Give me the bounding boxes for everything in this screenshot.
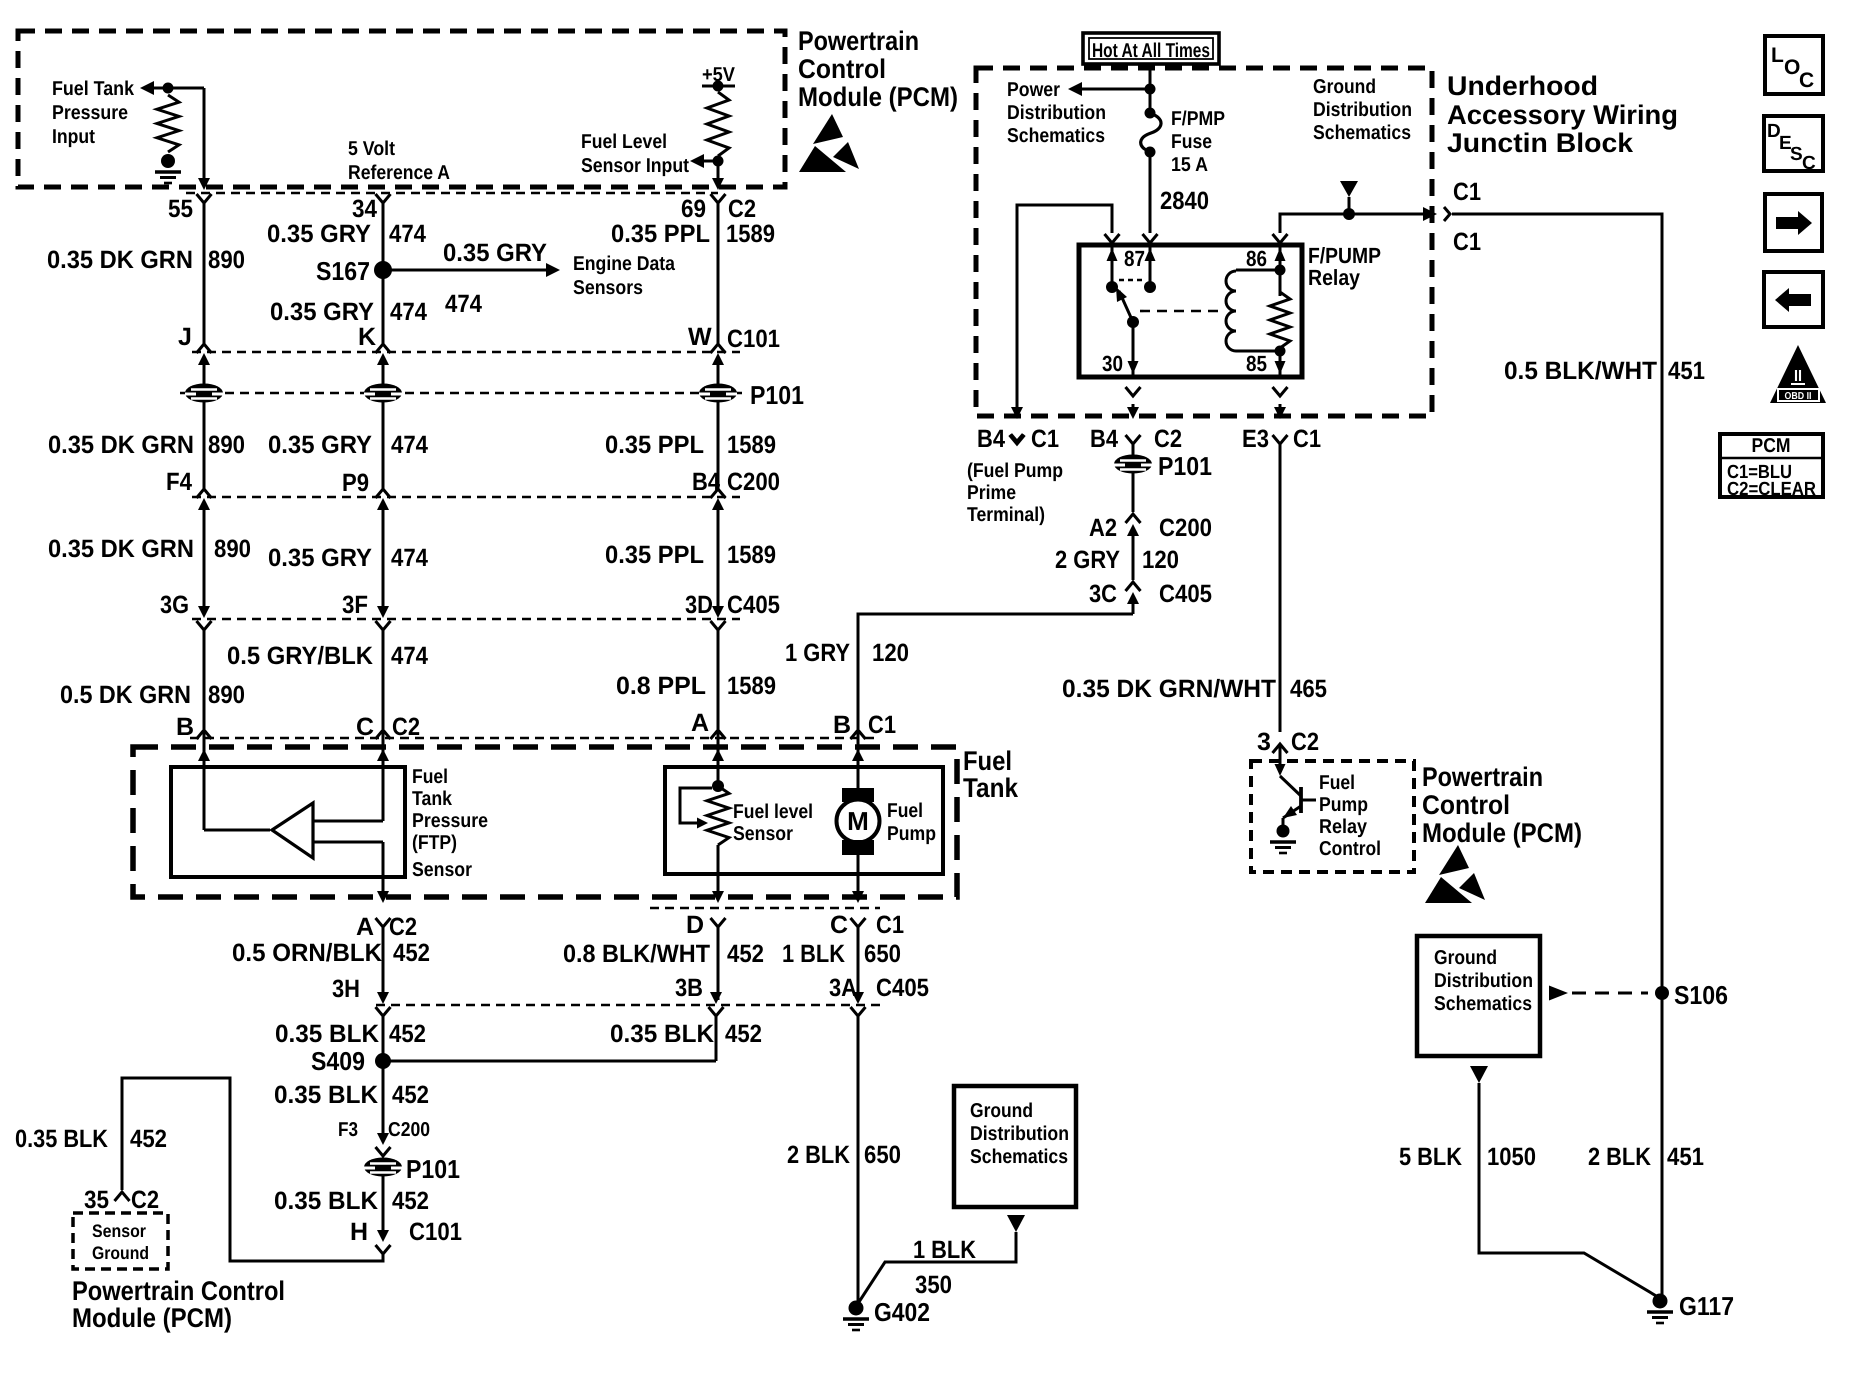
svg-text:C2: C2 xyxy=(389,913,417,941)
svg-text:0.35 BLK: 0.35 BLK xyxy=(274,1187,378,1215)
svg-text:Sensor Input: Sensor Input xyxy=(581,155,689,177)
svg-text:Hot At All Times: Hot At All Times xyxy=(1092,40,1210,62)
svg-text:452: 452 xyxy=(392,1187,429,1215)
svg-text:85: 85 xyxy=(1246,351,1267,376)
svg-text:P101: P101 xyxy=(1158,451,1212,481)
fuel pump motor xyxy=(857,767,860,790)
svg-text:0.35 GRY: 0.35 GRY xyxy=(270,298,374,326)
svg-text:C1: C1 xyxy=(1031,425,1059,453)
svg-text:1050: 1050 xyxy=(1487,1143,1536,1171)
svg-text:452: 452 xyxy=(392,1081,429,1109)
svg-text:474: 474 xyxy=(445,290,482,318)
Underhood junction block dashed box xyxy=(976,68,1432,416)
svg-text:C200: C200 xyxy=(388,1119,430,1141)
svg-text:Control: Control xyxy=(1319,838,1381,860)
svg-text:86: 86 xyxy=(1246,246,1267,271)
svg-text:Module (PCM): Module (PCM) xyxy=(798,82,958,112)
fuel level wiper xyxy=(680,788,712,823)
svg-text:Sensor: Sensor xyxy=(92,1221,146,1241)
svg-text:C2: C2 xyxy=(392,713,420,741)
svg-text:Prime: Prime xyxy=(967,482,1016,504)
svg-text:Tank: Tank xyxy=(963,773,1019,803)
svg-text:0.8 BLK/WHT: 0.8 BLK/WHT xyxy=(563,940,710,968)
svg-text:L: L xyxy=(1771,44,1784,67)
svg-text:3F: 3F xyxy=(342,591,368,619)
svg-text:3C: 3C xyxy=(1089,580,1117,608)
FTP sensor box xyxy=(171,767,405,877)
svg-text:Fuel: Fuel xyxy=(963,746,1012,776)
svg-text:0.35 PPL: 0.35 PPL xyxy=(605,541,704,569)
svg-text:C: C xyxy=(1799,69,1814,92)
svg-text:F4: F4 xyxy=(166,468,192,496)
svg-text:Relay: Relay xyxy=(1308,265,1361,290)
svg-text:452: 452 xyxy=(725,1020,762,1048)
relay coil drive dashed link xyxy=(1140,310,1222,313)
svg-text:II: II xyxy=(1794,368,1802,385)
svg-text:30: 30 xyxy=(1102,351,1123,376)
PCM connector legend xyxy=(1720,434,1823,497)
svg-text:Relay: Relay xyxy=(1319,816,1368,838)
svg-text:Sensors: Sensors xyxy=(573,277,643,299)
svg-text:3B: 3B xyxy=(675,974,703,1002)
svg-text:1589: 1589 xyxy=(727,541,776,569)
svg-text:0.5 DK GRN: 0.5 DK GRN xyxy=(60,681,191,709)
svg-text:K: K xyxy=(358,323,376,351)
svg-text:G402: G402 xyxy=(874,1297,930,1327)
svg-text:S: S xyxy=(1790,144,1803,165)
svg-text:1 GRY: 1 GRY xyxy=(785,639,850,667)
wire 69 drop inside PCM xyxy=(717,161,720,184)
svg-text:Control: Control xyxy=(1422,790,1510,820)
circuit 2840 wire xyxy=(1149,152,1152,233)
svg-text:0.35 BLK: 0.35 BLK xyxy=(15,1125,108,1153)
left arrow icon xyxy=(1764,272,1823,327)
svg-text:A2: A2 xyxy=(1089,514,1117,542)
svg-text:C2=CLEAR: C2=CLEAR xyxy=(1727,479,1816,500)
svg-text:0.8 PPL: 0.8 PPL xyxy=(616,672,706,700)
svg-text:A: A xyxy=(691,709,709,737)
svg-text:C405: C405 xyxy=(1159,580,1212,608)
svg-text:474: 474 xyxy=(389,220,426,248)
svg-text:Sensor: Sensor xyxy=(733,823,793,845)
wire 474 segment 1 xyxy=(382,203,385,344)
svg-text:890: 890 xyxy=(208,431,245,459)
svg-text:69: 69 xyxy=(681,195,706,223)
svg-text:Fuel: Fuel xyxy=(412,766,448,788)
antenna mark xyxy=(1340,181,1358,197)
svg-text:Fuel: Fuel xyxy=(1319,772,1355,794)
svg-text:3A: 3A xyxy=(829,974,857,1002)
svg-text:Control: Control xyxy=(798,54,886,84)
OBD II icon xyxy=(1770,345,1826,403)
svg-text:452: 452 xyxy=(727,940,764,968)
svg-text:0.5 GRY/BLK: 0.5 GRY/BLK xyxy=(227,642,373,670)
svg-text:650: 650 xyxy=(864,940,901,968)
svg-text:S167: S167 xyxy=(316,256,370,286)
svg-text:O: O xyxy=(1784,56,1800,79)
svg-text:S106: S106 xyxy=(1674,980,1728,1010)
grommet P101 c xyxy=(699,384,737,403)
relay 30 output wire xyxy=(1132,404,1135,410)
svg-text:120: 120 xyxy=(872,639,909,667)
grommet P101 a xyxy=(185,384,223,403)
svg-text:452: 452 xyxy=(389,1020,426,1048)
svg-text:Schematics: Schematics xyxy=(1313,122,1411,144)
svg-text:0.35 DK GRN: 0.35 DK GRN xyxy=(47,246,193,274)
svg-text:C101: C101 xyxy=(409,1218,462,1246)
svg-text:C2: C2 xyxy=(131,1186,159,1214)
relay coil resistor xyxy=(1270,292,1290,348)
svg-text:C405: C405 xyxy=(727,591,780,619)
svg-text:350: 350 xyxy=(915,1271,952,1299)
svg-text:J: J xyxy=(178,323,192,351)
fuel sender box xyxy=(665,767,943,874)
svg-text:1 BLK: 1 BLK xyxy=(782,940,845,968)
svg-text:C200: C200 xyxy=(1159,514,1212,542)
svg-text:Module (PCM): Module (PCM) xyxy=(1422,818,1582,848)
svg-text:W: W xyxy=(688,323,712,351)
F/PUMP relay box xyxy=(1079,245,1302,377)
svg-text:C1: C1 xyxy=(1453,228,1481,256)
svg-text:Fuel Tank: Fuel Tank xyxy=(52,78,135,100)
svg-text:Terminal): Terminal) xyxy=(967,504,1045,526)
svg-text:Pressure: Pressure xyxy=(412,810,488,832)
grommet P101 lower xyxy=(364,1158,402,1177)
svg-text:B4: B4 xyxy=(1090,425,1118,453)
ground G117 xyxy=(1653,1294,1668,1309)
svg-text:55: 55 xyxy=(168,195,193,223)
PCM driver dashed box xyxy=(1251,761,1414,872)
splice S106 xyxy=(1655,986,1669,1000)
connector C405 line xyxy=(192,618,740,621)
svg-text:PCM: PCM xyxy=(1752,435,1791,457)
svg-text:Distribution: Distribution xyxy=(970,1123,1069,1145)
Sensor Ground dashed box xyxy=(73,1213,168,1269)
relay 86 output wire to C1 xyxy=(1273,234,1288,243)
svg-text:0.35 DK GRN/WHT: 0.35 DK GRN/WHT xyxy=(1062,675,1276,703)
svg-text:(FTP): (FTP) xyxy=(412,832,457,854)
wire 890 segment 1 xyxy=(203,203,206,344)
svg-text:P101: P101 xyxy=(406,1154,460,1184)
svg-text:451: 451 xyxy=(1667,1143,1704,1171)
svg-text:Engine Data: Engine Data xyxy=(573,253,676,275)
svg-text:Distribution: Distribution xyxy=(1313,99,1412,121)
wire 474 segment 2 xyxy=(382,402,385,489)
svg-text:2 BLK: 2 BLK xyxy=(787,1141,850,1169)
svg-text:C2: C2 xyxy=(1291,728,1319,756)
svg-text:C1: C1 xyxy=(868,711,896,739)
svg-text:Input: Input xyxy=(52,126,95,148)
transistor emitter ground xyxy=(1277,825,1290,838)
svg-text:0.35 DK GRN: 0.35 DK GRN xyxy=(48,431,194,459)
relay coil xyxy=(1226,271,1236,351)
svg-text:Ground: Ground xyxy=(970,1100,1033,1122)
relay feed branch wire xyxy=(1017,205,1112,410)
svg-text:C1: C1 xyxy=(1453,178,1481,206)
Hot At All Times box xyxy=(1083,33,1219,64)
svg-text:OBD II: OBD II xyxy=(1785,391,1812,402)
svg-text:Fuel: Fuel xyxy=(887,800,923,822)
LOC icon xyxy=(1765,36,1823,94)
svg-text:F/PMP: F/PMP xyxy=(1171,108,1225,130)
svg-text:0.35 PPL: 0.35 PPL xyxy=(605,431,704,459)
svg-text:Fuse: Fuse xyxy=(1171,131,1212,153)
svg-text:465: 465 xyxy=(1290,675,1327,703)
svg-text:474: 474 xyxy=(391,544,428,572)
tank exits xyxy=(382,877,385,897)
svg-text:5 BLK: 5 BLK xyxy=(1399,1143,1462,1171)
FTP op-amp triangle xyxy=(272,803,313,858)
svg-text:Schematics: Schematics xyxy=(1007,125,1105,147)
svg-text:2 GRY: 2 GRY xyxy=(1055,546,1120,574)
grommet P101 relay xyxy=(1114,455,1152,474)
svg-text:E3: E3 xyxy=(1242,425,1269,453)
relay control transistor xyxy=(1275,764,1286,776)
svg-text:Ground: Ground xyxy=(1434,947,1497,969)
sender connector line xyxy=(650,907,880,910)
svg-text:3: 3 xyxy=(1257,728,1271,756)
F/PMP fuse xyxy=(1145,108,1156,119)
fuel level sensor input arrow xyxy=(713,156,724,167)
svg-text:0.5 ORN/BLK: 0.5 ORN/BLK xyxy=(232,939,382,967)
svg-text:G117: G117 xyxy=(1679,1291,1734,1321)
svg-text:Junctin Block: Junctin Block xyxy=(1447,128,1634,158)
svg-text:0.35 GRY: 0.35 GRY xyxy=(267,220,371,248)
svg-text:0.35 GRY: 0.35 GRY xyxy=(268,431,372,459)
svg-text:890: 890 xyxy=(214,535,251,563)
ground distribution box right xyxy=(1417,936,1540,1056)
svg-text:1589: 1589 xyxy=(727,672,776,700)
svg-text:Power: Power xyxy=(1007,79,1060,101)
svg-text:B4: B4 xyxy=(977,425,1005,453)
right arrow icon xyxy=(1765,194,1822,251)
engine data sensors arrow xyxy=(391,269,548,272)
DESC icon xyxy=(1764,116,1823,171)
svg-text:15 A: 15 A xyxy=(1171,154,1208,176)
svg-text:0.5 BLK/WHT: 0.5 BLK/WHT xyxy=(1504,357,1657,385)
FTP input arrow xyxy=(147,87,204,90)
Fuel Tank dashed box xyxy=(133,747,957,897)
svg-text:Pump: Pump xyxy=(1319,794,1368,816)
S106 splice arrow xyxy=(1549,986,1568,1001)
svg-text:Fuel level: Fuel level xyxy=(733,801,813,823)
svg-text:2840: 2840 xyxy=(1160,187,1209,215)
svg-text:P101: P101 xyxy=(750,380,804,410)
svg-text:0.35 PPL: 0.35 PPL xyxy=(611,220,710,248)
svg-text:Powertrain: Powertrain xyxy=(798,26,919,56)
ground distribution box middle xyxy=(954,1086,1076,1207)
ESD symbol right xyxy=(1439,845,1469,875)
connector C101 line xyxy=(192,351,740,354)
svg-text:Distribution: Distribution xyxy=(1007,102,1106,124)
C1 pass-through arrows xyxy=(1423,207,1437,221)
FTP internal wiring xyxy=(203,767,206,830)
451 wire right side xyxy=(1452,214,1662,1301)
connector C405 lower line xyxy=(376,1004,880,1007)
svg-text:35: 35 xyxy=(84,1186,109,1214)
relay switch blade xyxy=(1119,291,1133,322)
FTP pull-up resistor xyxy=(163,83,174,94)
svg-text:0.35 BLK: 0.35 BLK xyxy=(274,1081,378,1109)
connector C200 line xyxy=(192,496,740,499)
top-left PCM dashed box xyxy=(18,31,785,187)
svg-text:1589: 1589 xyxy=(726,220,775,248)
svg-text:3H: 3H xyxy=(332,975,360,1003)
svg-text:H: H xyxy=(350,1218,368,1246)
sensor ground return path xyxy=(122,1078,383,1261)
ground (inside PCM) xyxy=(161,154,175,168)
svg-text:Reference A: Reference A xyxy=(348,162,450,184)
svg-text:5 Volt: 5 Volt xyxy=(348,138,395,160)
svg-text:Tank: Tank xyxy=(412,788,453,810)
svg-text:A: A xyxy=(356,913,374,941)
svg-text:Accessory Wiring: Accessory Wiring xyxy=(1447,100,1678,130)
svg-text:Ground: Ground xyxy=(92,1243,149,1263)
pin 34 chevron xyxy=(376,194,391,203)
svg-text:C200: C200 xyxy=(727,468,780,496)
wire 890 segment 2 xyxy=(203,402,206,489)
svg-text:C: C xyxy=(1802,153,1816,174)
svg-text:474: 474 xyxy=(391,642,428,670)
svg-text:0.35 GRY: 0.35 GRY xyxy=(268,544,372,572)
svg-text:C2: C2 xyxy=(1154,425,1182,453)
svg-text:890: 890 xyxy=(208,681,245,709)
svg-text:Fuel Level: Fuel Level xyxy=(581,131,667,153)
svg-text:Ground: Ground xyxy=(1313,76,1376,98)
svg-text:34: 34 xyxy=(352,195,377,223)
svg-text:Underhood: Underhood xyxy=(1447,71,1598,101)
svg-text:452: 452 xyxy=(130,1125,167,1153)
svg-text:P9: P9 xyxy=(342,469,369,497)
wire 55 drop inside PCM xyxy=(203,88,206,184)
svg-text:474: 474 xyxy=(390,298,427,326)
svg-text:C: C xyxy=(830,911,848,939)
svg-text:F3: F3 xyxy=(338,1119,358,1141)
svg-text:B: B xyxy=(176,713,194,741)
PCM C2 connector line xyxy=(186,192,718,195)
grommet P101 b xyxy=(364,384,402,403)
svg-text:3G: 3G xyxy=(160,591,189,619)
svg-text:1589: 1589 xyxy=(727,431,776,459)
svg-text:1 BLK: 1 BLK xyxy=(913,1236,976,1264)
svg-text:0.35 DK GRN: 0.35 DK GRN xyxy=(48,535,194,563)
svg-text:890: 890 xyxy=(208,246,245,274)
fuel level sensor resistor xyxy=(717,767,720,786)
svg-text:2 BLK: 2 BLK xyxy=(1588,1143,1651,1171)
fuel pump feed wire 1 GRY 120 xyxy=(858,614,1133,729)
svg-text:0.35 BLK: 0.35 BLK xyxy=(275,1020,379,1048)
svg-text:S409: S409 xyxy=(311,1046,365,1076)
pass-through P101 line xyxy=(180,392,742,395)
svg-text:452: 452 xyxy=(393,939,430,967)
5 BLK 1050 wire xyxy=(1470,1066,1488,1083)
svg-text:C405: C405 xyxy=(876,974,929,1002)
svg-text:C1: C1 xyxy=(876,911,904,939)
svg-text:Powertrain: Powertrain xyxy=(1422,762,1543,792)
svg-text:C1: C1 xyxy=(1293,425,1321,453)
svg-text:Sensor: Sensor xyxy=(412,859,472,881)
fuse feed wire xyxy=(1149,64,1152,113)
fuel level pull-up resistor xyxy=(707,92,729,156)
svg-text:87: 87 xyxy=(1124,246,1145,271)
svg-text:474: 474 xyxy=(391,431,428,459)
tank connector line xyxy=(190,737,878,740)
relay 85 output wire xyxy=(1279,404,1282,410)
ESD symbol top xyxy=(813,114,843,144)
svg-text:3D: 3D xyxy=(685,591,713,619)
svg-text:451: 451 xyxy=(1668,357,1705,385)
svg-text:Distribution: Distribution xyxy=(1434,970,1533,992)
svg-text:D: D xyxy=(686,911,704,939)
svg-text:C2: C2 xyxy=(728,195,756,223)
svg-text:Schematics: Schematics xyxy=(970,1146,1068,1168)
svg-text:Powertrain Control: Powertrain Control xyxy=(72,1276,285,1306)
svg-text:(Fuel Pump: (Fuel Pump xyxy=(967,460,1063,482)
svg-text:C: C xyxy=(356,713,374,741)
power distribution arrow xyxy=(1076,88,1150,91)
1 BLK 350 wire xyxy=(1007,1215,1025,1232)
svg-text:Schematics: Schematics xyxy=(1434,993,1532,1015)
ground G402 xyxy=(849,1301,864,1316)
svg-text:120: 120 xyxy=(1142,546,1179,574)
wire 1589 segment 1 xyxy=(717,203,720,344)
wire 1589 segment 2 xyxy=(717,402,720,489)
svg-text:Pressure: Pressure xyxy=(52,102,128,124)
svg-text:Pump: Pump xyxy=(887,823,936,845)
svg-text:Module (PCM): Module (PCM) xyxy=(72,1303,232,1333)
svg-text:B: B xyxy=(833,711,851,739)
svg-text:650: 650 xyxy=(864,1141,901,1169)
svg-text:C101: C101 xyxy=(727,325,780,353)
svg-text:0.35 BLK: 0.35 BLK xyxy=(610,1020,714,1048)
svg-text:M: M xyxy=(847,806,869,836)
svg-text:0.35 GRY: 0.35 GRY xyxy=(443,239,547,267)
